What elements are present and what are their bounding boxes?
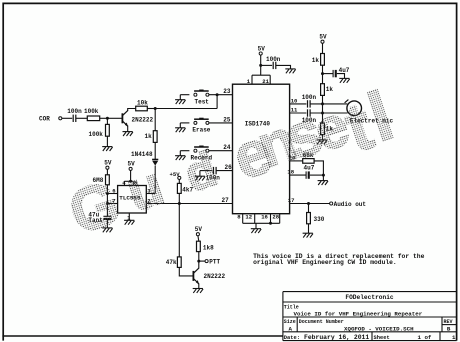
node junction 10k row [154,107,157,110]
wire 5V to R5 [106,169,108,175]
ground under R2 [102,147,112,151]
ground under R11 [303,233,313,237]
svg-text:10k: 10k [137,99,148,106]
wire D1 to U2 pin3 [154,166,156,194]
resistor R3 10k [136,106,148,111]
svg-text:330: 330 [314,216,325,223]
svg-text:100k: 100k [84,108,99,115]
terminal Audio out [330,202,333,205]
wire C3 to U1 pin 26 [216,170,232,172]
wire bottom staple [243,222,280,224]
U2 pin 1 stub [128,213,130,220]
wire staple to ground [255,223,257,228]
node 68k 4u7 junction [322,174,325,177]
node 5V tie [129,180,132,183]
svg-text:1: 1 [452,334,456,341]
wire 5V to tie [130,170,132,181]
ground at C4 [285,69,295,73]
wire 5V to R7 [322,43,324,53]
watermark stippled text [61,76,402,248]
ground at C3 [199,171,201,177]
wire Test to U1 pin 23 [209,94,233,96]
resistor R13 1k8 [197,241,201,251]
resistor R10 68k [303,159,314,164]
svg-text:26: 26 [225,164,233,171]
wire node down to R11 [308,204,310,213]
power +5V terminal 4k7 [178,176,181,179]
svg-text:100k: 100k [89,131,104,138]
wire C6 to mic [310,103,347,105]
svg-text:COR: COR [39,116,50,123]
svg-text:FODelectronic: FODelectronic [345,294,394,301]
svg-text:17: 17 [288,197,295,204]
ground under Q2 [193,289,203,293]
node junction COR row [106,117,109,120]
wire ground to Test button [180,94,189,96]
U1 pin 20 wire [290,160,303,162]
diode D1 1N4148 [152,158,158,160]
wire C8 to node [310,174,324,176]
COR input terminal [59,117,62,120]
svg-text:Sheet: Sheet [374,335,390,341]
U2 pin 4 stub [123,181,125,185]
resistor R7 1k [321,54,325,66]
node PTT junction [197,260,200,263]
wire node to ground stub [322,175,324,181]
resistor R4 1k [153,131,157,143]
wire COR to C1 [62,117,72,119]
svg-text:A: A [289,326,293,333]
wire Q1 collector [128,109,136,111]
wire C5 to ground [337,74,345,79]
resistor R2 100k [106,124,110,136]
pushbutton Erase [194,118,209,125]
ground at C5 [339,78,349,82]
svg-text:100n: 100n [266,56,281,63]
ground under C2 [102,228,112,232]
wire node to C5 [323,73,334,75]
svg-text:5V: 5V [104,160,112,167]
capacitor C1 100n [72,115,74,122]
wire R2 to ground [106,136,108,146]
resistor R6 4k7 [177,183,181,193]
capacitor C8 4u7 [305,171,307,178]
wire node to PTT terminal [199,260,205,262]
power 5V terminal mic rail [321,40,324,43]
resistor R5 6M8 [106,175,110,185]
ground under U1 [251,229,261,233]
svg-text:Audio out: Audio out [334,201,367,208]
wire node down to R4 [154,109,156,131]
node pin6 rail [106,192,109,195]
node 4k7 junction [178,202,181,205]
ground under Q1 [123,132,133,136]
pushbutton Test [194,90,209,97]
wire pin27 branch down [178,204,180,257]
wire R6 to long wire [178,193,180,203]
wire rail 10 to 11 [322,104,324,113]
power 5V terminal U2 top [129,167,132,170]
svg-text:1 of: 1 of [418,334,432,341]
svg-text:Test: Test [195,98,210,105]
wire 5V to R13 [197,236,200,242]
capacitor C7 100n [307,109,309,116]
node Test riser junction [216,93,219,96]
capacitor C6 100n [307,100,309,107]
capacitor C5 4u7 [332,70,334,77]
wire R11 to ground [308,224,310,233]
U1 pin 12 stub [254,214,256,224]
wire 11 down to R9 [322,113,324,123]
wire Q2 collector up [198,261,200,268]
wire Record to U1 pin 24 [209,150,233,152]
ground under U2 [124,220,134,224]
resistor R8 1k [321,84,325,96]
wire C4 to ground [276,65,291,69]
wire tie pins 4-8 [124,180,133,182]
power 5V terminal above U1 [259,52,262,55]
wire tie pins 1-21 [252,74,270,76]
wire R1 to node [100,117,108,119]
ground at C8 [318,181,328,185]
svg-text:REV: REV [444,319,453,325]
svg-text:Size: Size [284,319,296,325]
U2 pin 8 stub [132,181,134,185]
svg-text:25: 25 [223,116,231,123]
U1 pin 18 wire [290,174,307,176]
wire Q2 emitter to ground [198,284,200,289]
node 100n branch [259,64,262,67]
U1 pin 16 stub [270,214,272,224]
op-amp U2 TLC555 body [118,186,147,214]
wire node to Q1 base [107,117,122,119]
node pin7 rail [106,202,109,205]
svg-text:1k: 1k [145,133,153,140]
wire R12 to Q2 base [179,267,192,276]
svg-text:1k: 1k [312,57,320,64]
ground at Erase button [179,123,181,128]
wire +5V to R6 [178,179,180,183]
ground at Test button [179,95,181,100]
ground at Record button [179,151,181,156]
node staple [269,222,272,225]
U1 pin 21 stub [269,75,271,84]
wire R10 corner to node [314,161,323,175]
U1 pin 11 wire [290,112,307,114]
node 4u7 branch [321,72,324,75]
resistor R12 47k [177,257,181,268]
title block outline [283,292,457,341]
wire Erase to U1 pin 25 [209,122,233,124]
svg-text:23: 23 [223,88,231,95]
node rail on wire 11 [321,112,324,115]
svg-text:XQGFOD - VOICEID.SCH: XQGFOD - VOICEID.SCH [344,326,414,333]
U1 pin 17 wire [290,203,330,205]
svg-text:Date:: Date: [284,335,300,341]
svg-text:16: 16 [261,214,268,221]
svg-text:+5V: +5V [170,171,181,178]
wire R9 to ground [322,135,324,140]
transistor Q1 2N2222 [121,113,123,123]
svg-text:Voice ID for VHF Engineering R: Voice ID for VHF Engineering Repeater [294,310,423,317]
wire C7 to mic [310,112,348,114]
resistor R9 1k [321,123,325,135]
wire ground to C3 [200,170,213,172]
wire C2 to ground [106,220,108,228]
svg-text:47k: 47k [166,259,177,266]
terminal PTT [205,260,208,263]
wire 5V drop to tie [260,55,262,75]
wire R7 to node [322,65,324,73]
wire Q1 emitter to ground [127,126,129,132]
svg-text:1k8: 1k8 [203,244,214,251]
microphone MK1 electret [347,101,362,116]
svg-text:5V: 5V [319,34,327,41]
wire node right to pin23 riser [155,108,217,110]
node R8 on wire 10 [321,102,324,105]
capacitor C3 100n [213,167,215,174]
U1 pin 8 stub [242,214,244,224]
svg-text:5V: 5V [195,226,203,233]
resistor R1 100k [87,116,99,121]
svg-text:12: 12 [245,214,252,221]
power 5V terminal left rail [106,166,109,169]
svg-text:2N2222: 2N2222 [132,117,154,124]
pushbutton Record [194,146,209,153]
capacitor C2 47u tantalum [103,215,111,217]
svg-text:Document Number: Document Number [299,319,344,325]
wire branch to C4 [261,64,272,66]
svg-text:28: 28 [272,214,279,221]
U2 pin 2 wire to U1 pin 27 [146,203,232,205]
wire ground to Erase button [180,122,189,124]
wire R4 to D1 [154,142,156,159]
wire R13 to node [198,252,200,262]
svg-text:PTT: PTT [209,258,220,265]
svg-text:Erase: Erase [192,127,210,134]
U2 pin 6 wire [107,193,117,195]
svg-text:21: 21 [262,78,269,85]
svg-text:February 16, 2011: February 16, 2011 [304,334,369,341]
svg-text:27: 27 [222,197,230,204]
IC U1 ISD1740 body [233,84,290,214]
node audio out [307,202,310,205]
U2 pin 7 wire [107,203,117,205]
U2 pin 3 wire [146,193,155,195]
U1 pin 28 stub [279,214,281,224]
wire node down to R2 [106,118,108,124]
svg-text:5V: 5V [258,45,266,52]
wire node down to R8 [322,74,324,84]
resistor R11 330 [307,213,311,224]
ground under R9 [317,140,327,144]
capacitor C4 100n [272,62,274,69]
svg-text:B: B [447,326,451,333]
wire ground to Record button [180,150,189,152]
power 5V terminal PTT [196,233,199,236]
transistor Q2 2N2222 [192,271,194,281]
wire rail down [106,185,108,216]
wire C1 to R1 [76,117,88,119]
U1 pin 10 wire [290,103,307,105]
svg-text:original VHF Engineering CW ID: original VHF Engineering CW ID module. [253,259,397,266]
wire R8 to wire10 [322,95,324,104]
wire riser up to Test line [216,95,218,109]
svg-text:2N2222: 2N2222 [204,273,226,280]
U1 pin 1 stub [251,75,253,84]
svg-text:1k: 1k [326,86,334,93]
wire R3 to node [147,108,155,110]
svg-text:100n: 100n [67,108,82,115]
